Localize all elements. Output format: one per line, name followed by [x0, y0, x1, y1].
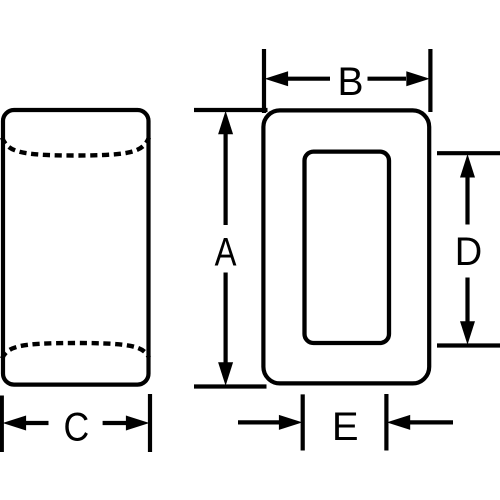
arrowhead B right: [406, 71, 430, 86]
hidden line bottom (dashed): [2, 343, 149, 359]
extension line E left: [301, 394, 305, 450]
extension line C right: [148, 394, 152, 452]
extension line B right: [428, 49, 432, 112]
inner rounded rectangle (front view hole): [305, 152, 390, 343]
dimension E right shaft: [410, 420, 453, 424]
svg-text:B: B: [337, 60, 363, 105]
svg-text:D: D: [455, 230, 482, 274]
dimension B left shaft: [287, 77, 330, 81]
extension line D top: [437, 151, 500, 155]
dimension C left shaft: [25, 421, 49, 425]
arrowhead E left (points right): [279, 415, 303, 430]
svg-text:C: C: [63, 406, 89, 450]
dimension A line lower: [224, 273, 228, 367]
dimension D line lower: [465, 278, 469, 327]
arrowhead D up: [460, 154, 475, 178]
dimension D line upper: [465, 172, 469, 225]
dimension A line upper: [224, 130, 228, 225]
arrowhead C right: [126, 416, 149, 431]
arrowhead A down: [218, 362, 233, 386]
arrowhead D down: [460, 321, 475, 345]
arrowhead E right (points left): [387, 415, 411, 430]
arrowhead B left: [265, 71, 289, 86]
svg-text:A: A: [215, 230, 237, 275]
left view outline: [3, 110, 149, 385]
svg-text:E: E: [332, 405, 359, 449]
arrowhead A up: [218, 111, 233, 135]
arrowhead C left: [3, 416, 27, 431]
hidden line top (dashed): [2, 138, 149, 156]
extension line B left: [262, 49, 266, 113]
extension line A top: [194, 108, 268, 112]
extension line A bottom: [194, 384, 267, 388]
extension line C left: [0, 396, 4, 453]
dimension B right shaft: [368, 77, 407, 81]
dimension E left shaft: [238, 420, 280, 424]
extension line D bottom: [437, 343, 500, 347]
extension line E right: [384, 394, 388, 451]
outer rounded rectangle (front view): [263, 110, 429, 383]
dimension C right shaft: [103, 421, 126, 425]
